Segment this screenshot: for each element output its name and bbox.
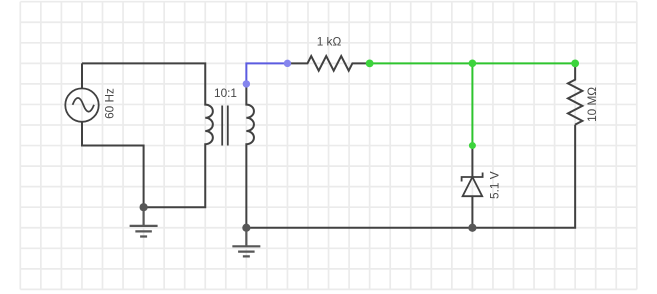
svg-text:5.1 V: 5.1 V: [488, 171, 502, 199]
svg-text:10:1: 10:1: [214, 86, 237, 100]
svg-text:10 MΩ: 10 MΩ: [585, 87, 599, 122]
svg-text:60 Hz: 60 Hz: [102, 88, 116, 119]
svg-text:1 kΩ: 1 kΩ: [317, 35, 342, 49]
